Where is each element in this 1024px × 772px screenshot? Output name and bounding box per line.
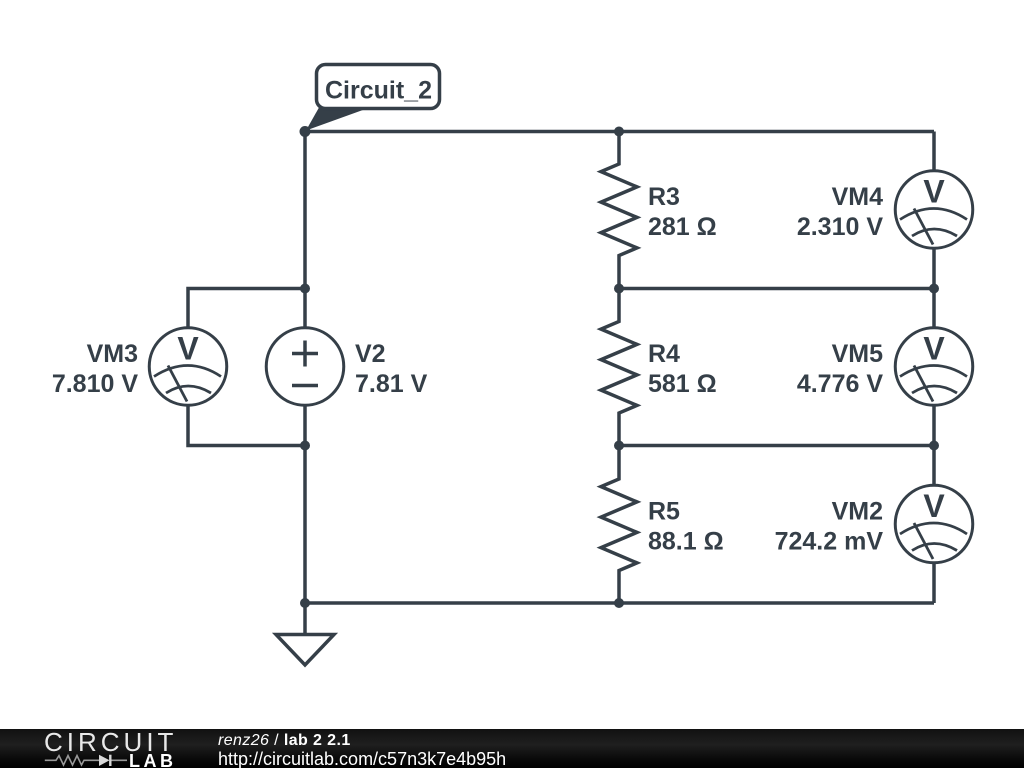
CircuitLab logo text CIRCUIT [44, 727, 177, 758]
svg-text:V: V [177, 331, 199, 367]
svg-text:R3: R3 [648, 183, 680, 211]
svg-text:V: V [923, 488, 945, 524]
svg-text:281 Ω: 281 Ω [648, 213, 717, 241]
node junction dot E [300, 441, 310, 451]
node junction dot I [614, 598, 624, 608]
wire rail 2 [619, 287, 934, 291]
wire rail 3 [619, 444, 934, 448]
node junction dot H [300, 598, 310, 608]
resistor R5 [601, 446, 724, 604]
node Circuit_2 callout [300, 65, 440, 138]
svg-text:VM3: VM3 [87, 340, 138, 368]
node junction dot D [929, 284, 939, 294]
wire VM3 bottom branch [188, 405, 305, 446]
voltmeter VM3 [52, 328, 227, 406]
svg-text:R5: R5 [648, 498, 680, 526]
ground [276, 603, 334, 665]
footer bar [0, 729, 1024, 768]
svg-text:VM4: VM4 [832, 183, 884, 211]
svg-text:7.81 V: 7.81 V [355, 370, 428, 398]
svg-text:4.776 V: 4.776 V [797, 370, 884, 398]
resistor R4 [601, 289, 717, 446]
svg-text:VM5: VM5 [832, 340, 884, 368]
node junction dot C [614, 284, 624, 294]
wire top rail [305, 130, 934, 134]
node junction dot F [614, 441, 624, 451]
CircuitLab logo text LAB [129, 751, 177, 772]
svg-text:Circuit_2: Circuit_2 [325, 77, 432, 105]
resistor R3 [601, 132, 717, 289]
svg-text:V: V [923, 174, 945, 210]
svg-text:V: V [923, 331, 945, 367]
footer url line [218, 749, 506, 770]
voltmeter VM5 [797, 328, 973, 406]
svg-text:V2: V2 [355, 340, 386, 368]
voltmeter VM2 [775, 485, 973, 563]
wire right column [932, 132, 936, 604]
svg-text:R4: R4 [648, 340, 680, 368]
node junction dot A [614, 127, 624, 137]
svg-text:724.2 mV: 724.2 mV [775, 528, 884, 556]
wire VM3 top branch [188, 289, 305, 329]
footer title line [218, 732, 351, 750]
svg-text:88.1 Ω: 88.1 Ω [648, 528, 724, 556]
svg-text:VM2: VM2 [832, 498, 883, 526]
svg-text:7.810 V: 7.810 V [52, 370, 139, 398]
wire bottom rail [305, 601, 934, 605]
node junction dot B [300, 284, 310, 294]
svg-text:581 Ω: 581 Ω [648, 370, 717, 398]
voltage source V2 [266, 328, 427, 406]
voltmeter VM4 [797, 171, 973, 249]
svg-text:2.310 V: 2.310 V [797, 213, 884, 241]
CircuitLab logo resistor-diode glyph [0, 729, 210, 768]
wire left column [303, 132, 307, 604]
node junction dot G [929, 441, 939, 451]
